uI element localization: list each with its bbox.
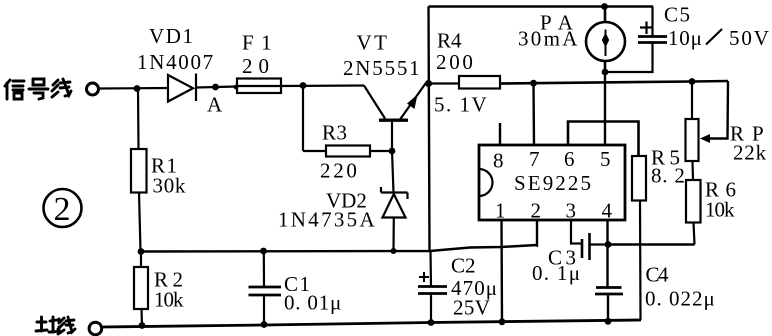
figure number 2 circled xyxy=(44,189,82,227)
svg-text:6: 6 xyxy=(564,147,575,171)
wire pin 4 down xyxy=(606,220,608,287)
svg-text:22k: 22k xyxy=(733,141,767,165)
node dot PA bottom xyxy=(602,69,609,76)
wire mid bus V+ rail xyxy=(141,245,537,252)
node dot pin4 C3 junction xyxy=(605,241,612,248)
svg-text:R4: R4 xyxy=(437,29,462,53)
resistor R5 xyxy=(632,156,646,320)
IC notch xyxy=(479,169,493,196)
wire main bus out xyxy=(500,81,728,84)
node dot emitter junction xyxy=(425,80,432,87)
fuse F1 xyxy=(237,79,281,94)
svg-text:30k: 30k xyxy=(153,174,187,198)
resistor R4 xyxy=(429,76,511,89)
node A dot xyxy=(212,84,219,91)
node dot C4 bottom xyxy=(605,318,612,325)
svg-text:1N4735A: 1N4735A xyxy=(278,208,377,232)
svg-text:10k: 10k xyxy=(154,288,184,312)
svg-text:8. 2: 8. 2 xyxy=(651,164,686,188)
node junction dot R1 branch xyxy=(134,85,141,92)
node dot RP branch xyxy=(689,78,696,85)
svg-text:20: 20 xyxy=(242,54,275,78)
resistor R2 xyxy=(134,252,148,326)
wire pin 7 to bus xyxy=(532,83,535,145)
terminal signal xyxy=(87,83,99,95)
node junction dot R3 branch xyxy=(300,82,307,89)
wire pin 3 to C3 xyxy=(571,220,582,244)
node dot pin1 bottom xyxy=(499,318,506,325)
capacitor C5 xyxy=(638,7,667,43)
resistor R3 xyxy=(303,86,392,157)
wire V+ vertical from top to C2 xyxy=(429,7,430,252)
label signal line chinese xyxy=(5,79,71,99)
svg-text:10μ: 10μ xyxy=(668,26,703,50)
svg-text:0. 1μ: 0. 1μ xyxy=(532,261,581,285)
svg-text:10k: 10k xyxy=(705,198,735,222)
IC U1 SE9225 xyxy=(479,145,625,220)
svg-text:200: 200 xyxy=(436,50,476,74)
svg-text:50V: 50V xyxy=(729,26,771,50)
svg-text:25V: 25V xyxy=(453,296,490,320)
capacitor C3 xyxy=(582,233,608,260)
zener diode VD2 xyxy=(381,151,408,251)
resistor R6 xyxy=(608,180,701,245)
node dot R2 top xyxy=(138,248,145,255)
svg-text:5. 1V: 5. 1V xyxy=(434,93,488,117)
potentiometer RP xyxy=(686,81,729,180)
svg-text:220: 220 xyxy=(320,159,360,183)
terminal ground xyxy=(89,322,102,335)
node dot R2 bottom xyxy=(139,322,146,329)
node dot VD2 anode xyxy=(391,248,397,254)
node dot fuse left xyxy=(234,85,239,90)
wire top rail xyxy=(429,5,654,7)
svg-text:C2: C2 xyxy=(451,254,476,278)
svg-text:VT: VT xyxy=(357,31,390,55)
node dot C1 top xyxy=(260,248,267,255)
svg-text:3: 3 xyxy=(566,199,577,223)
svg-text:R3: R3 xyxy=(322,121,348,145)
wire pin 2 down xyxy=(536,220,538,247)
transistor VT xyxy=(364,84,426,152)
diode VD1 xyxy=(168,74,196,102)
wire PA bottom to C5 xyxy=(605,43,653,73)
node dot pin7 top xyxy=(530,80,537,87)
svg-text:F1: F1 xyxy=(242,31,279,55)
svg-text:1: 1 xyxy=(495,199,506,223)
wire pin 8 stub xyxy=(499,123,501,145)
slash xyxy=(706,29,722,45)
meter PA xyxy=(586,7,625,73)
ground bus wire xyxy=(101,320,641,327)
svg-text:A: A xyxy=(207,93,223,117)
node dot C2 bottom xyxy=(428,319,435,326)
svg-text:7: 7 xyxy=(529,147,540,171)
svg-text:1N4007: 1N4007 xyxy=(137,50,215,74)
resistor R1 xyxy=(131,89,147,252)
node dot base junction xyxy=(389,148,396,155)
svg-text:8: 8 xyxy=(493,149,504,173)
svg-text:4: 4 xyxy=(602,199,613,223)
capacitor C2 xyxy=(418,251,447,323)
wire pin 5 to PA xyxy=(604,72,606,145)
wire pin 6 jog xyxy=(568,122,639,157)
label ground line chinese xyxy=(36,317,75,334)
svg-text:30mA: 30mA xyxy=(518,27,580,51)
capacitor C4 xyxy=(595,288,623,322)
svg-text:C5: C5 xyxy=(664,3,692,27)
svg-text:SE9225: SE9225 xyxy=(514,171,593,195)
wire pin 1 down xyxy=(500,220,503,322)
svg-text:2: 2 xyxy=(54,191,71,228)
wire signal line horizontal xyxy=(99,87,168,90)
svg-text:0. 01μ: 0. 01μ xyxy=(284,291,342,315)
node dot PA top xyxy=(601,3,608,10)
svg-text:2N5551: 2N5551 xyxy=(343,56,421,80)
capacitor C1 xyxy=(249,251,282,325)
wire fuse right to collector junction xyxy=(281,84,364,87)
svg-text:C4: C4 xyxy=(646,263,670,287)
svg-text:0. 022μ: 0. 022μ xyxy=(645,287,716,311)
svg-text:2: 2 xyxy=(531,199,542,223)
wire fuse left xyxy=(196,87,237,88)
svg-text:5: 5 xyxy=(600,147,611,171)
svg-text:VD1: VD1 xyxy=(149,24,195,48)
node dot C1 bottom xyxy=(261,321,268,328)
